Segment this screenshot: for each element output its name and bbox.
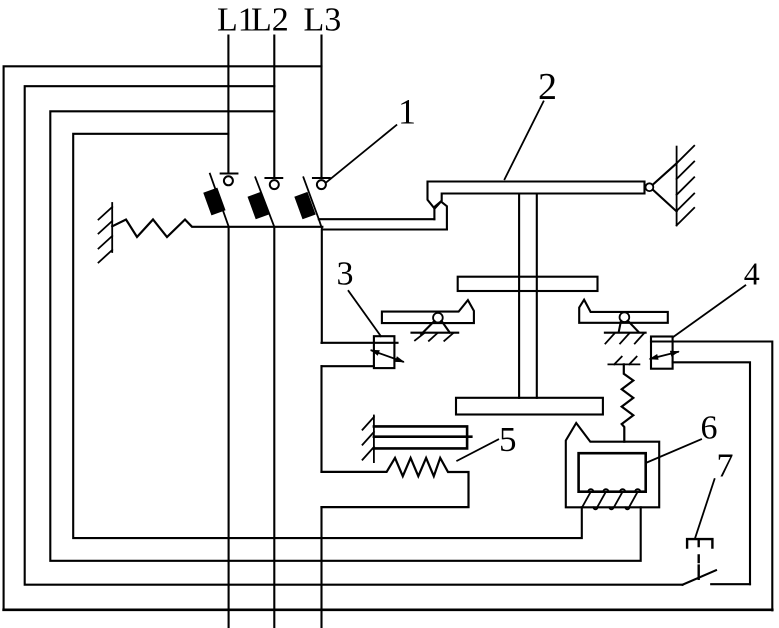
svg-text:L3: L3: [304, 2, 342, 39]
svg-text:1: 1: [398, 92, 416, 132]
svg-text:7: 7: [717, 448, 734, 485]
svg-text:2: 2: [538, 66, 557, 108]
svg-text:L1: L1: [217, 2, 255, 39]
svg-text:4: 4: [744, 256, 760, 292]
svg-text:L2: L2: [251, 2, 289, 39]
svg-text:6: 6: [701, 410, 718, 447]
svg-text:3: 3: [337, 256, 354, 293]
svg-text:5: 5: [499, 420, 517, 459]
